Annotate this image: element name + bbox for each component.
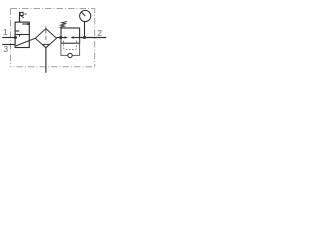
svg-text:2: 2 [97,28,102,38]
svg-text:1: 1 [3,27,8,37]
enclosure frame (dash-dot) [11,9,95,67]
inlet arrowhead [65,36,68,39]
valve V1 body [15,22,29,47]
top cell dash [22,23,29,25]
port line 1 [2,37,15,39]
flow line inside right [73,37,79,39]
regulator R1 body [61,28,80,43]
junction node gauge tap [83,36,86,39]
valve divider [15,34,29,36]
port 1 junction [14,36,17,39]
outlet arrowhead [71,36,74,39]
filter element dash mid [45,36,47,40]
top cell dash end blob [27,23,29,25]
pilot dash right top [76,41,78,44]
filter element dash upper [45,27,47,29]
filter element dash upper2 [45,30,47,34]
riser plug square [20,12,23,15]
riser plug dash [25,13,27,15]
port line 3 [2,44,15,46]
filter F1 diamond [35,29,56,48]
valve lever diagonal [16,38,36,46]
condensate drain line [45,48,47,73]
pilot dash left top [63,41,65,44]
relief U line [61,39,80,55]
spring [60,22,67,28]
junction node L [59,36,62,39]
pressure gauge G1 [80,10,91,21]
gauge needle [81,12,85,16]
tick below divider [19,35,21,37]
separator funnel [43,44,49,48]
output line to port 2 [80,37,107,39]
gauge stem [84,21,86,37]
flow line inside left [61,37,65,39]
svg-text:3: 3 [3,44,8,54]
flow line filter to regulator [57,37,62,39]
pilot dashed loop [64,44,77,49]
plug leg [20,15,23,18]
vent circle [68,53,72,57]
mid-left blocked port dash [16,30,20,32]
valve port 2 riser [19,12,21,22]
